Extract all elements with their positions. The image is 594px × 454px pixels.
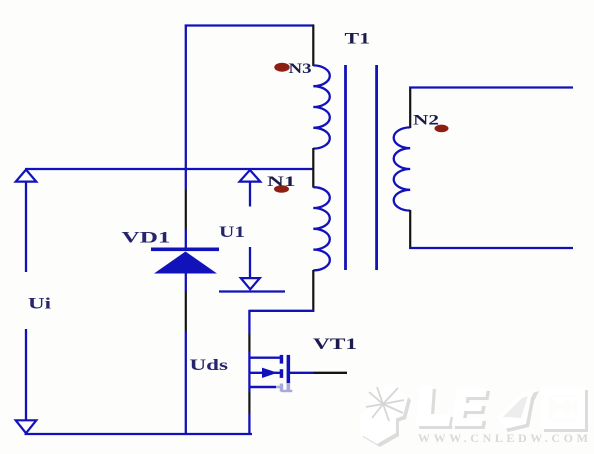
svg-text:VD1: VD1 (122, 230, 171, 247)
svg-text:T1: T1 (345, 30, 371, 47)
transformer T1 primary line: middle black segment (312, 148, 314, 188)
wire: central vertical blue lower (185, 332, 187, 435)
voltage indicator Ui: up arrow (16, 170, 37, 182)
wire: bottom rail (25, 433, 253, 435)
wire: central vertical blue below diode (185, 272, 187, 291)
transformer core line 2 (375, 65, 378, 270)
svg-text:N1: N1 (267, 174, 296, 190)
svg-text:VT1: VT1 (313, 336, 357, 353)
winding N2 (394, 127, 411, 210)
polarity dot N3 (274, 63, 289, 72)
wire: Ui upper segment (25, 182, 27, 272)
voltage indicator U1: up arrow (240, 170, 261, 182)
polarity dot N2 (435, 125, 449, 133)
reference bar below U1 arrow (219, 290, 285, 292)
polarity dot N1 (274, 185, 289, 193)
transformer T1 primary line: top black segment (312, 25, 314, 67)
svg-text:WWW.CNLEDW.COM: WWW.CNLEDW.COM (418, 431, 592, 445)
wire: Ui lower segment (25, 329, 27, 420)
wire: U1 lower segment (249, 247, 251, 278)
diode VD1 (151, 248, 219, 274)
wire: central vertical blue upper (185, 25, 187, 191)
transistor VT1 (MOSFET) (249, 355, 347, 392)
svg-text:U1: U1 (219, 224, 245, 241)
wire: central vertical black segment 1 (185, 190, 187, 229)
voltage indicator Ui: down arrow (16, 420, 37, 433)
winding N1 (313, 187, 330, 270)
wire: source branch vertical blue (248, 414, 250, 436)
svg-text:Ui: Ui (28, 296, 52, 313)
transformer secondary line: top black segment (409, 87, 411, 129)
wire: drain branch vertical black (248, 334, 250, 352)
wire: secondary bottom rail (409, 247, 573, 249)
wire: left input rail horizontal (25, 168, 314, 170)
voltage indicator U1: down arrow (241, 278, 260, 289)
svg-text:N3: N3 (289, 61, 312, 77)
transformer secondary line: bottom black segment (409, 210, 411, 249)
wire: drain branch vertical blue (248, 310, 250, 334)
transformer T1 primary line: bottom black segment (312, 270, 314, 312)
wire: U1 upper segment (249, 182, 251, 207)
wire: drain branch vertical blue 2 (248, 352, 250, 392)
wire: top rail (185, 24, 314, 26)
wire: central vertical black segment 2 (185, 291, 187, 332)
svg-text:N2: N2 (413, 113, 439, 129)
watermark logo LED net (360, 384, 592, 447)
wire: source branch vertical black (248, 392, 250, 414)
wire: central vertical blue to diode (185, 229, 187, 250)
wire: N1 bottom to drain, horizontal step (249, 310, 314, 312)
wire: secondary top rail (409, 86, 573, 88)
svg-text:Uds: Uds (190, 357, 229, 374)
winding N3 (313, 65, 330, 148)
transformer core line 1 (344, 65, 347, 270)
